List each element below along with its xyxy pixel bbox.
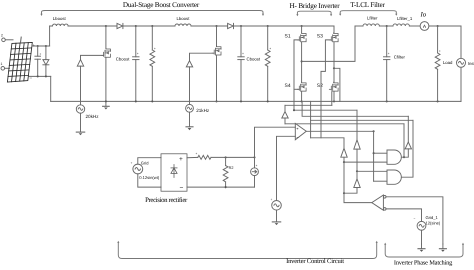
buffer driver T2 [354,110,360,171]
bottom rail [51,100,461,102]
svg-text:+: + [40,52,42,56]
wire source to ground [189,112,191,127]
node dot [333,100,335,102]
ac source reference sine [272,201,282,211]
wire S4 gate [294,88,299,90]
ground phase b [418,244,425,252]
svg-text:Grid_1: Grid_1 [426,215,439,220]
precision rectifier box [161,154,187,191]
wire S3 gate [321,40,331,138]
ac source 21kHz [186,104,194,112]
transistor M1 [102,48,111,57]
capacitor input Cin [35,46,41,76]
svg-text:Lboost: Lboost [53,16,67,21]
wire descender to bottom rail [50,76,52,101]
svg-text:+: + [242,52,244,56]
brace t-lcl filter [340,11,396,15]
svg-text:Cfilter: Cfilter [394,55,406,60]
buffer driver T3 [405,116,411,149]
node dot [267,100,269,102]
wire AND2 input b [374,180,387,182]
port terminal V- [1,67,5,71]
wire R1 to node [211,156,255,158]
wire Grid_1 to ground [421,230,423,244]
node dot [215,25,217,27]
brace h-bridge inverter [297,11,331,15]
transistor S4 [297,82,306,91]
svg-text:12(sine): 12(sine) [426,221,441,226]
wire AND1 input a [374,152,387,154]
and gate G2 [387,170,401,184]
ac source 20kHz [76,105,84,113]
solar PV panel [7,42,32,82]
svg-text:+: + [131,161,133,165]
node dot [373,152,375,154]
wire S4 source [301,92,303,102]
svg-text:S4: S4 [285,83,291,89]
svg-text:Inverter Phase Matching: Inverter Phase Matching [394,260,453,267]
transistor S1 [297,33,306,42]
transistor S2 [329,82,338,91]
node dot [225,156,227,158]
wire riser to top rail [49,26,51,46]
wire gate mesh h1 [285,104,332,106]
wire node B to filter bottom [334,68,340,101]
svg-text:+: + [33,43,36,48]
node dot [386,100,388,102]
wire gate mesh h2 [294,109,357,111]
inductor Lboost1 [175,24,191,26]
gate wire M2 [190,53,214,61]
wire comparator to AND inputs [373,131,375,181]
wire top rail 3 [191,25,228,27]
ac source Grid_1 [417,221,426,230]
resistor Load [435,26,440,101]
svg-text:T-LCL Filter: T-LCL Filter [350,1,385,9]
svg-text:+: + [137,52,139,56]
wire S1 drain [301,26,303,33]
node dot [437,25,439,27]
node dot [105,100,107,102]
svg-text:Inst: Inst [468,61,474,66]
capacitor Cfilter [384,26,390,101]
node dot [343,161,345,163]
svg-text:+: + [388,52,390,56]
node dot [403,156,405,158]
comparator U2 phase [372,195,384,210]
brace inverter control circuit [118,243,376,259]
wire [429,25,461,27]
diode D2 [228,23,234,28]
svg-text:H- Bridge Inverter: H- Bridge Inverter [290,2,341,10]
transistor M2 source wire [216,55,218,101]
ac source grid sense [457,58,466,67]
resistor R load2 [265,26,270,101]
ammeter Io [420,22,429,31]
resistor R2 [223,157,228,187]
svg-text:20kHz: 20kHz [86,114,100,119]
svg-text:0.12sin(wt): 0.12sin(wt) [139,175,160,180]
svg-text:+: + [256,164,258,168]
svg-text:S3: S3 [317,34,323,40]
ground 20kHz [76,131,84,133]
wire AND1 feedback riser [403,124,405,157]
wire top rail 2 [123,25,175,27]
wire comparator output [306,130,373,132]
wire gate mesh h3 [302,101,408,116]
ground arrow at M1 source [103,101,110,109]
wire gate mesh hC [285,123,404,125]
capacitor Cboost [133,26,139,101]
comparator U1 [295,123,306,139]
wire comparator minus input [277,136,296,200]
port terminal V+ [2,38,6,42]
wire top rail 1 [50,25,117,27]
wire rectifier bottom return [187,186,255,188]
wire node to comparator plus [255,127,296,157]
node dot node A [301,60,303,62]
wire port to panel [5,39,13,41]
node dot [343,192,345,194]
wire gate mesh h4 [310,101,312,137]
node dot [37,75,39,77]
svg-text:+: + [296,126,299,131]
ground reference [272,221,280,223]
svg-text:Dual-Stage Boost Converter: Dual-Stage Boost Converter [123,1,200,9]
wire rectifier out top [187,156,198,158]
svg-text:−: − [414,217,416,221]
svg-text:A: A [423,24,427,30]
svg-text:+: + [179,156,183,163]
node dot [45,75,47,77]
wire G2 output [401,120,413,177]
node dot [301,100,303,102]
wire AND2 input a [357,170,387,172]
wire isrc top [254,157,256,167]
svg-text:21kHz: 21kHz [196,108,210,113]
wire [379,25,393,27]
transistor M1 source wire [105,58,107,102]
svg-text:Inverter Control Circuit: Inverter Control Circuit [286,258,344,265]
wire top rail 4 [234,25,335,27]
wire buffer to source [189,67,191,105]
ground phase a [439,244,446,252]
wire isrc bottom [254,176,256,188]
node dot [45,45,47,47]
svg-text:Load: Load [443,60,453,65]
node dot [253,156,255,158]
capacitor Cboost1 [238,26,244,101]
svg-text:+: + [196,152,198,156]
gate wire M1 [81,55,103,59]
inductor Lfilter_1 [393,24,409,26]
svg-text:+: + [154,47,156,51]
node dot [151,100,153,102]
ground 21kHz [186,126,193,128]
wire right edge [460,26,462,58]
node dot [135,25,137,27]
svg-text:Precision rectifier: Precision rectifier [145,197,188,204]
resistor R1 [198,155,211,159]
inductor Lboost [53,24,69,26]
svg-text:S2: S2 [317,83,323,89]
node dot [215,100,217,102]
wire U2 output [344,193,372,202]
wire [409,25,420,27]
and gate G1 [387,150,401,164]
svg-text:Cboost: Cboost [247,56,261,61]
wire U2 input top [386,197,443,244]
ac source Grid [133,164,143,174]
svg-text:+: + [269,47,271,51]
node dot node B [333,67,335,69]
node dot [386,25,388,27]
svg-text:+: + [439,49,441,53]
brace inverter phase matching [385,244,463,257]
node dot [240,25,242,27]
wire S3 drain [333,26,335,33]
inductor Lfilter [363,24,379,26]
node dot [301,25,303,27]
resistor R load1 [150,26,155,101]
svg-text:Io: Io [420,11,427,18]
node dot [105,25,107,27]
node dot [373,130,375,132]
wire S2 gate drop [331,92,333,106]
wire S2 source [333,92,335,102]
svg-text:−: − [180,185,184,192]
svg-text:1: 1 [1,62,3,66]
svg-text:Lboost: Lboost [177,16,191,21]
svg-text:+: + [271,198,273,202]
transistor M2 [212,46,221,55]
svg-text:Lfilter_1: Lfilter_1 [397,16,413,21]
svg-text:R2: R2 [229,166,234,170]
wire panel minus [29,75,51,77]
node dot [267,25,269,27]
current source sense [251,168,259,176]
svg-text:Lfilter: Lfilter [367,15,378,20]
node dot [37,45,39,47]
transistor S3 [329,33,338,42]
wire source to ground [80,113,82,132]
brace dual-stage boost converter [42,11,264,15]
wire AND1 input b [344,161,387,163]
wire S3 gate link [311,138,344,149]
wire panel plus rail [32,45,50,47]
diode input D0 [43,46,49,76]
svg-text:Cboost: Cboost [116,56,130,61]
wire source to rectifier top [138,158,161,164]
panel top input stub [20,37,23,43]
buffer driver T1 [341,148,347,157]
svg-text:S1: S1 [285,34,291,40]
wire S1 source to S4 drain [301,42,303,82]
U2 bubble top [383,196,386,199]
wire filter top rail [355,25,363,27]
buffer driver M1 [77,60,83,67]
node dot [151,25,153,27]
wire [460,67,462,101]
svg-text:2: 2 [1,34,3,38]
wire S1 gate [294,40,299,110]
wire source to rectifier bottom [138,174,161,187]
wire U2 input bottom [386,209,422,222]
buffer driver T4 [344,171,360,193]
node dot [240,100,242,102]
buffer driver M2 [186,61,192,67]
node dot [437,100,439,102]
wire ref source to ground [276,210,278,222]
wire gate mesh h4 [311,119,413,121]
wire S3 source to S2 drain [333,42,335,82]
node dot [135,100,137,102]
buffer driver S1 [282,105,288,124]
wire port to panel [5,67,10,69]
wire T1 down [343,157,345,193]
wire G1 output [401,149,408,157]
rectifier internal diode [171,165,177,178]
svg-text:Grid: Grid [141,160,149,165]
node dot [225,186,227,188]
node dot [356,170,358,172]
transistor M2 drain wire [216,26,218,46]
U2 bubble bottom [383,208,386,211]
wire buffer to source [80,66,82,105]
diode D1 [117,23,123,28]
node dot [293,109,295,111]
transistor M1 drain wire [105,26,107,48]
wire node A to filter top [302,26,355,61]
